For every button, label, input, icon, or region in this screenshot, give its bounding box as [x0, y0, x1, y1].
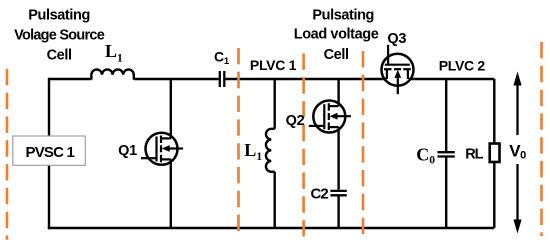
wire C1 to Q3 left stem	[225, 78, 386, 80]
svg-text:Q3: Q3	[387, 31, 406, 47]
svg-text:Q2: Q2	[286, 113, 305, 129]
wire right vertical RL branch	[493, 79, 495, 228]
wire C2 to bottom	[337, 196, 339, 228]
svg-text:Pulsating: Pulsating	[312, 7, 374, 23]
inductor L1 top horizontal coil	[91, 70, 133, 80]
capacitor C0	[438, 151, 455, 153]
inductor L1 middle vertical coil	[266, 129, 275, 172]
orange dashed separator 5	[540, 42, 543, 236]
svg-text:Cell: Cell	[324, 47, 349, 63]
svg-text:Pulsating: Pulsating	[28, 8, 90, 24]
svg-text:C0: C0	[416, 144, 435, 166]
svg-text:V0: V0	[509, 142, 526, 162]
transistor Q1	[141, 133, 183, 165]
wire Q1 source branch	[170, 159, 172, 228]
svg-text:PLVC 1: PLVC 1	[250, 57, 297, 73]
wire Q3 right stem to right corner	[409, 78, 495, 80]
wire bottom	[48, 227, 495, 229]
wire top after L1 coil	[134, 78, 219, 80]
wire C0 branch lower	[445, 157, 447, 228]
wire C0 branch upper	[445, 79, 447, 152]
transistor Q2	[309, 101, 351, 133]
svg-text:PLVC 2: PLVC 2	[439, 58, 486, 74]
wire L1 mid branch lower	[274, 172, 276, 228]
svg-text:Q1: Q1	[118, 143, 137, 159]
PVSC 1 box	[13, 136, 86, 165]
svg-text:PVSC 1: PVSC 1	[26, 144, 75, 161]
Q3 body arrow tail extension	[397, 91, 399, 95]
svg-text:Load voltage: Load voltage	[294, 27, 379, 43]
capacitor C1	[219, 71, 221, 87]
orange dashed separator 1	[6, 69, 9, 240]
svg-text:C1: C1	[214, 49, 230, 67]
svg-text:RL: RL	[465, 147, 483, 163]
svg-text:Cell: Cell	[47, 48, 72, 64]
wire L1 mid branch upper	[274, 79, 276, 129]
wire Q2 source to C2	[337, 127, 339, 190]
wire Q1 drain branch	[170, 79, 172, 139]
capacitor C2	[330, 190, 346, 192]
wire Q2 drain branch	[337, 79, 339, 106]
Q3 gate lead extension	[387, 45, 389, 50]
wire top left to C1	[49, 78, 92, 80]
transistor Q3	[382, 49, 414, 91]
svg-text:L1: L1	[244, 140, 262, 163]
svg-text:Volage Source: Volage Source	[14, 27, 105, 43]
orange dashed separator 3	[302, 54, 305, 241]
resistor RL box	[490, 144, 500, 163]
V0 output arrow down	[516, 164, 518, 221]
wire left vertical	[48, 78, 50, 229]
svg-text:L1: L1	[105, 41, 123, 64]
orange dashed separator 2	[237, 48, 240, 238]
V0 output arrow up	[516, 84, 518, 135]
orange dashed separator 4	[362, 51, 365, 240]
svg-text:C2: C2	[311, 185, 329, 202]
